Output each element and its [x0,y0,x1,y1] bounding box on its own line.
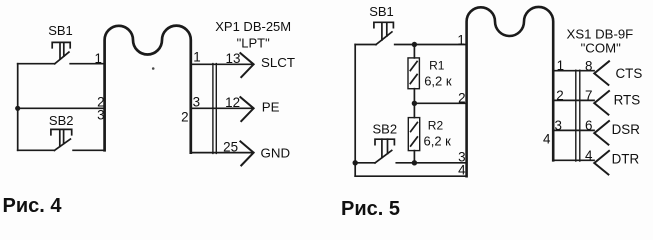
switch SB1 (fig5) push-button cap [374,22,394,27]
svg-text:XP1 DB-25M: XP1 DB-25M [215,19,291,34]
svg-text:7: 7 [585,88,592,103]
svg-text:1: 1 [193,49,200,64]
svg-text:13: 13 [226,51,241,66]
wire 3: SB2 row left segment (fig5) [355,162,375,164]
resistor R2 body [408,118,419,151]
svg-text:CTS: CTS [616,66,643,81]
node: fig4 junction of wire 2 on left bus [15,106,20,111]
wire: R2 bottom lead [413,151,415,163]
svg-text:2: 2 [556,88,563,103]
wire: XP1 pin 13 row [191,63,254,65]
svg-text:SB2: SB2 [373,121,398,136]
svg-text:SB2: SB2 [49,113,74,128]
svg-text:1: 1 [94,51,101,66]
wire 1: SB1 row left segment [18,63,55,65]
arrow pin 6 [594,121,609,145]
wire: fig4 left bus vertical [17,64,19,151]
svg-text:25: 25 [223,139,238,154]
wire: XS1 pin 7 row [553,99,594,101]
node: fig5 junction SB2 row on left bus [353,160,358,165]
svg-text:2: 2 [458,90,465,105]
wire 2: midpoint to cable (fig5) [414,102,466,104]
arrow pin 4 [594,151,609,175]
arrow pin 12 [240,97,253,121]
svg-text:3: 3 [193,95,200,110]
svg-text:"LPT": "LPT" [237,36,270,51]
svg-text:SLCT: SLCT [261,55,295,70]
wire 1: SB1 row left segment (fig5) [355,44,376,46]
resistor R1 power marks [410,62,417,84]
wire 1: SB1 row right segment (fig5) [395,44,467,46]
svg-text:DTR: DTR [612,152,640,167]
arrow pin 7 [594,91,609,115]
svg-text:1: 1 [557,58,564,73]
wire: XS1 pin 8 row [553,70,594,72]
svg-text:RTS: RTS [614,93,641,108]
svg-text:2: 2 [181,109,188,124]
switch SB1 (fig5) actuator stem [382,22,387,40]
svg-text:8: 8 [585,59,592,74]
svg-text:R1: R1 [429,58,445,72]
switch SB2 (fig5) push-button cap [375,139,394,145]
svg-text:Рис. 4: Рис. 4 [3,195,63,216]
svg-text:4: 4 [458,162,466,177]
wire: fig5 left bus vertical [354,45,356,177]
switch SB2 (fig4) row: left segment [18,149,55,151]
svg-text:DSR: DSR [612,122,641,137]
wire: XS1 pin 4 row [553,159,594,161]
wire 1: SB1 row right segment to cable [70,63,104,65]
resistor R2 power marks [411,123,418,147]
wire 2/3: middle wire [18,107,105,109]
svg-text:6: 6 [585,118,592,133]
svg-text:6,2 к: 6,2 к [424,74,452,89]
svg-text:Рис. 5: Рис. 5 [341,198,400,216]
connector XP1 body (double line) [213,64,216,154]
resistor R1 body [408,58,419,89]
speck [152,67,155,70]
node: R2 bottom junction on wire 3 [412,160,417,165]
wire: XS1 pin 6 row [553,129,594,131]
svg-text:6,2 к: 6,2 к [424,133,452,148]
switch SB1 (fig4) push-button cap [52,42,70,47]
svg-text:12: 12 [225,95,240,110]
connector XS1 body (double line) [576,70,580,161]
switch SB1 (fig5) moving contact [376,32,392,45]
svg-text:4: 4 [543,132,551,147]
arrow pin 8 [594,61,609,85]
svg-text:SB1: SB1 [48,23,73,38]
wire: R1 top lead [413,45,415,58]
wire: XP1 pin 25 row [191,152,254,154]
arrow pin 13 [240,53,253,77]
switch SB2 (fig4) moving contact [54,139,70,150]
wire: R1 bottom lead to R2 [413,89,415,118]
svg-text:3: 3 [554,118,561,133]
switch SB1 (fig4) moving contact [55,52,69,64]
switch SB1 (fig4) actuator stem [60,42,64,59]
switch SB2 (fig5) moving contact [375,150,392,163]
switch SB2 (fig4) push-button cap [51,129,72,134]
svg-text:"COM": "COM" [581,41,621,56]
svg-text:R2: R2 [428,119,444,133]
switch SB2 (fig4) row: right segment [73,149,105,151]
svg-text:PE: PE [262,100,280,115]
cable loop (fig4) [105,26,191,153]
switch SB2 (fig4) actuator stem [60,129,64,146]
switch SB2 (fig5) actuator stem [382,139,388,157]
cable loop (fig5) [467,7,554,176]
arrow pin 25 [240,141,253,165]
svg-text:XS1 DB-9F: XS1 DB-9F [567,26,634,41]
wire 3: SB2 row right segment (fig5) [396,162,466,164]
svg-text:1: 1 [457,32,464,47]
svg-text:GND: GND [261,146,291,161]
wire: XP1 pin 12 row [191,107,254,109]
wire 4: bottom wire (fig5) [355,175,466,177]
node: R1/R2 midpoint junction [412,101,417,106]
node: R1 top junction [412,42,417,47]
svg-text:SB1: SB1 [369,4,394,19]
svg-text:4: 4 [585,148,593,163]
